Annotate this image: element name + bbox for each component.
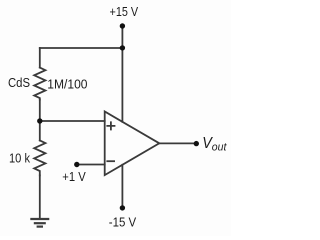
node A junction dot xyxy=(37,118,42,123)
wire output xyxy=(159,142,196,144)
op-amp plus input symbol xyxy=(107,122,114,129)
wire left rail top xyxy=(39,48,41,68)
ground xyxy=(30,219,49,227)
wire +15V vertical supply xyxy=(121,26,123,122)
wire node A to noninverting input xyxy=(40,120,105,122)
svg-text:10 k: 10 k xyxy=(9,151,30,166)
wire left rail bottom to ground xyxy=(39,175,41,218)
svg-text:+15 V: +15 V xyxy=(110,4,139,19)
node dot -15V terminal xyxy=(120,205,125,210)
wire left rail middle xyxy=(39,100,41,141)
op-amp minus input symbol xyxy=(107,160,114,162)
resistor R 10 k xyxy=(34,141,45,176)
resistor CdS (photoresistor, 1M/100) xyxy=(34,68,45,100)
svg-text:Vout: Vout xyxy=(202,135,227,154)
node dot +1V terminal xyxy=(74,162,79,167)
svg-text:-15 V: -15 V xyxy=(109,215,137,230)
node dot junction top wire xyxy=(120,45,125,50)
wire top horizontal xyxy=(40,47,123,49)
node dot +15V terminal xyxy=(120,23,125,28)
wire inverting input from +1V node xyxy=(77,164,105,166)
node dot Vout terminal xyxy=(194,141,199,146)
svg-text:1M/100: 1M/100 xyxy=(47,76,87,91)
wire negative supply vertical xyxy=(121,165,123,208)
op-amp U1 triangle xyxy=(105,112,160,176)
svg-text:CdS: CdS xyxy=(8,75,30,90)
svg-text:+1 V: +1 V xyxy=(62,169,86,184)
